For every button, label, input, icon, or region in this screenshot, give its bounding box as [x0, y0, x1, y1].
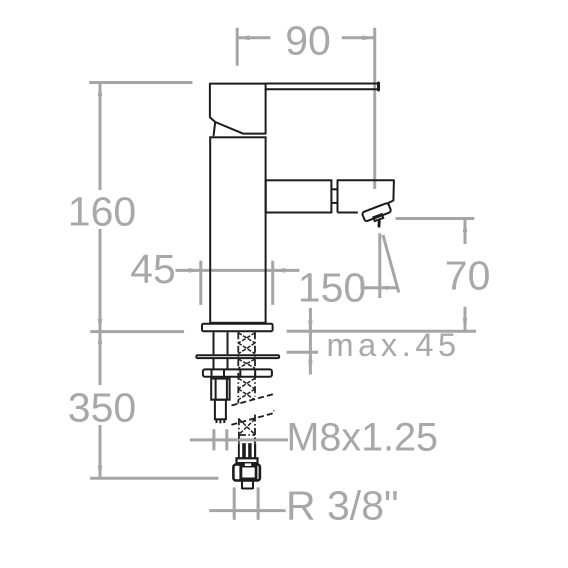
svg-text:160: 160 [68, 189, 136, 235]
base plate [202, 324, 273, 332]
leader R 3/8" [209, 487, 285, 519]
svg-text:M8x1.25: M8x1.25 [287, 416, 439, 460]
mounting nut bar [203, 369, 272, 376]
spout joint [331, 180, 337, 212]
faucet handle head [210, 84, 266, 136]
svg-text:max.45: max.45 [327, 327, 461, 363]
leader M8x1.25 [190, 429, 288, 450]
svg-text:90: 90 [285, 17, 331, 63]
svg-text:70: 70 [445, 253, 491, 299]
spout outlet left section [266, 180, 332, 212]
washer plate [196, 355, 279, 358]
dimension 70 [396, 219, 475, 331]
dimension 45 [176, 261, 300, 305]
flexible hose lower stub [239, 415, 255, 444]
spout outlet right section [338, 180, 394, 212]
flexible hose upper (braided, dash-dot edges + cross hatch) [238, 332, 255, 403]
svg-text:45: 45 [130, 246, 176, 292]
stud M8 lower end [215, 400, 226, 424]
break line lower [231, 411, 274, 425]
dimension 90 [237, 28, 375, 189]
break line upper [232, 392, 273, 406]
dimension 350 [90, 332, 218, 479]
hose flare collar [237, 458, 258, 463]
faucet body [210, 137, 265, 322]
spout top bar [266, 83, 379, 90]
svg-text:R 3/8": R 3/8" [286, 483, 399, 529]
svg-text:350: 350 [68, 385, 136, 431]
connection nut R3/8 [233, 463, 260, 481]
dimension 160 [89, 83, 192, 332]
dimension 150 [362, 233, 399, 298]
hose end tube [242, 482, 253, 490]
water drip [378, 221, 381, 226]
aerator [362, 203, 392, 222]
handle lever front edge [214, 122, 216, 135]
mounting studs upper [214, 332, 228, 368]
hose ribbed nipple [238, 443, 256, 458]
valve assembly block [211, 379, 229, 400]
dimension max.45 [287, 308, 476, 375]
svg-text:150: 150 [298, 265, 366, 311]
